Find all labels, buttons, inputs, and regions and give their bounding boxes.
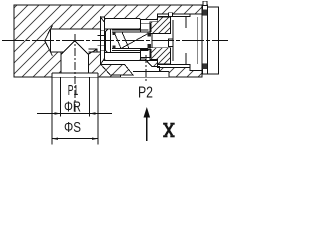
spring coils xyxy=(114,32,149,49)
socket end xyxy=(169,39,173,47)
thread zone lines (bottom) xyxy=(158,64,190,67)
P2 chamber outline strokes xyxy=(101,59,169,77)
P1 spotface outline xyxy=(52,73,98,77)
poppet xyxy=(105,27,110,56)
svg-text:P1: P1 xyxy=(68,83,79,99)
thread runout line xyxy=(185,17,187,65)
cavity: main stepped bore (white void) xyxy=(45,14,202,71)
sleeve body (lower wall) xyxy=(105,52,141,60)
sleeve body (upper wall) xyxy=(105,19,141,29)
seat cone (drill tent) over P1 xyxy=(61,41,89,73)
main horizontal centerline xyxy=(2,40,228,42)
lock tab xyxy=(203,1,207,5)
svg-text:ΦS: ΦS xyxy=(64,120,81,136)
block right face line xyxy=(201,5,203,77)
view direction arrow xyxy=(146,114,148,141)
sleeve thin neck (lower) xyxy=(141,49,152,57)
dimension R line with outside arrows xyxy=(37,113,112,115)
P2 port centerline xyxy=(145,55,147,83)
spring bottom rails xyxy=(112,48,149,50)
P1 port centerline xyxy=(74,34,76,112)
extension lines for dimension S xyxy=(52,77,98,144)
spring wire sections xyxy=(113,32,116,36)
sleeve thin neck (upper) xyxy=(141,24,152,32)
dimension S line with arrows xyxy=(52,138,98,140)
hatched web between sleeve pocket and P2 port xyxy=(101,64,133,75)
thread zone lines (top) xyxy=(158,14,190,17)
plug hex head xyxy=(208,7,219,74)
thread relief notch xyxy=(168,13,172,17)
washer bottom xyxy=(203,64,208,74)
manifold block body (hatched) xyxy=(14,5,202,77)
plug nose face xyxy=(151,33,153,47)
sleeve flange (seat insert) xyxy=(101,17,105,64)
view label X xyxy=(163,123,175,138)
plug internal step xyxy=(172,20,174,61)
plug sectioned wall (lower, fine hatch) xyxy=(150,48,171,64)
plug sectioned wall (upper, fine hatch) xyxy=(150,17,171,33)
port P1 vertical bore + spotface (white void) xyxy=(52,52,98,77)
poppet nose in flange hole xyxy=(98,36,105,46)
svg-text:ΦR: ΦR xyxy=(64,100,81,116)
cavity outline strokes xyxy=(45,14,202,71)
washer top xyxy=(203,5,208,15)
plug collar line xyxy=(196,17,198,64)
extension lines for dimension R xyxy=(61,77,90,116)
svg-text:P2: P2 xyxy=(138,84,153,101)
spring top rails xyxy=(112,30,149,32)
port P2 chamber + spotface (white void) xyxy=(101,59,169,77)
